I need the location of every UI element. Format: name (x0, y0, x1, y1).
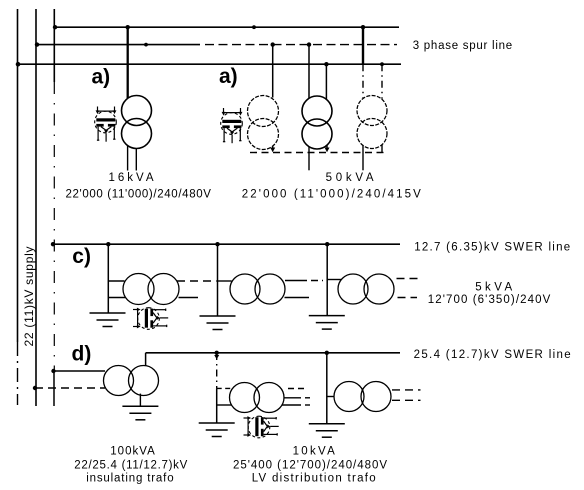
svg-text:insulating trafo: insulating trafo (86, 473, 173, 485)
ground dT2 (199, 423, 235, 437)
wire: supply busbar 1 lower dash (17, 342, 19, 405)
wire: SWER line d (146, 352, 400, 354)
node: swer c junction 3 (325, 242, 329, 246)
node: phase1 junction T3a (361, 25, 365, 29)
wire: T1b primary feed (272, 45, 274, 98)
svg-text:12.7 (6.35)kV SWER line: 12.7 (6.35)kV SWER line (414, 241, 570, 253)
wire: dT2 right mid (284, 397, 301, 399)
wire: dT3 drop (326, 353, 328, 423)
svg-text:22'000 (11'000)/240/480V: 22'000 (11'000)/240/480V (65, 189, 211, 201)
transformer dT1 circles (104, 366, 159, 396)
wire: cT3 upper branch (327, 279, 341, 281)
svg-text:LV distribution trafo: LV distribution trafo (252, 473, 376, 485)
node: phase3 tap (16, 62, 21, 67)
node: phase2 junction T2a (307, 42, 311, 46)
wire: supply busbar 2 (35, 9, 37, 406)
wire: cT2 right upper (285, 280, 307, 282)
transformer dT3 circles (334, 382, 391, 412)
LV icon U4 rotated (244, 416, 279, 438)
svg-text:50kVA: 50kVA (326, 172, 374, 184)
svg-text:12'700 (6'350)/240V: 12'700 (6'350)/240V (428, 294, 551, 306)
wire: supply busbar 3 dash-dot (53, 82, 55, 371)
transformer T3 circles dashed (357, 96, 387, 149)
wire: cT3 drop (326, 244, 328, 315)
wire: dT2 drop dashdot (216, 353, 218, 388)
wire: T3 secondary right stub (381, 145, 383, 153)
node: swer d junction 2 (325, 351, 329, 355)
node: swer d junction 1 (215, 351, 219, 355)
transformer T1a circles (122, 96, 152, 149)
svg-text:5kVA: 5kVA (475, 281, 512, 293)
node: phase3 junction T2b (324, 62, 328, 66)
node: phase1 junction T1a (126, 25, 130, 29)
transformer cT3 circles (338, 274, 394, 304)
wire: SWER line c (52, 243, 400, 245)
wire: T1a primary feed (127, 27, 129, 98)
wire: cT1 right lower (179, 297, 199, 299)
node: phase2 junction T1b (271, 42, 275, 46)
wire: cT2 right upper dash (311, 280, 323, 282)
node: phase2 tap (35, 42, 39, 46)
wire: T2 secondary drop with arrow (326, 145, 328, 149)
svg-text:16kVA: 16kVA (109, 172, 154, 184)
node: swer c junction 2 (215, 242, 219, 246)
node: d feed tap (51, 369, 55, 373)
node: d feed dashed tap (33, 386, 37, 390)
wire: phase line 1 (54, 26, 399, 28)
wire: dT2 right upper dashed (288, 388, 307, 390)
ground dT1 (122, 406, 158, 420)
svg-text:22'000 (11'000)/240/415V: 22'000 (11'000)/240/415V (242, 189, 421, 201)
wire: cT2 drop (217, 244, 219, 315)
wire: cT1 lower branch (108, 297, 125, 299)
wire: T3 secondary passthrough (362, 146, 364, 171)
LV icon U2 (221, 108, 243, 143)
transformer dT2 circles (230, 383, 285, 413)
wire: dT3 branch (327, 396, 334, 398)
wire: T2 secondary passthrough (308, 147, 310, 171)
node: swer c tap (51, 242, 55, 246)
wire: T3a primary feed thick (362, 27, 364, 64)
svg-text:a): a) (92, 65, 111, 88)
ground dT3 (309, 424, 345, 438)
transformer cT1 circles (123, 274, 179, 305)
svg-text:d): d) (72, 343, 92, 366)
wire: dT1 riser (145, 353, 147, 366)
node: phase2 dot (144, 43, 148, 47)
node: phase3 junction T3b (380, 62, 384, 66)
wire: dT2 right lower dash (305, 404, 313, 406)
wire: a2 LV dashed interconnection (250, 152, 385, 154)
ground cT1 (90, 313, 126, 327)
wire: cT2 upper branch (218, 280, 232, 282)
node: swer c junction 1 (106, 242, 110, 246)
wire: dT2 lower branch (217, 404, 232, 406)
node: phase1 dot (252, 25, 256, 29)
transformer cT2 circles (230, 274, 285, 304)
wire: dT3 right upper dashed (392, 389, 421, 391)
svg-text:25.4 (12.7)kV SWER line: 25.4 (12.7)kV SWER line (414, 349, 571, 361)
wire: dT3 right lower dashed (392, 399, 421, 401)
wire: cT1 right upper dashed (177, 280, 217, 282)
ground cT2 (200, 316, 236, 330)
wire: T1b secondary drop with arrow (272, 146, 274, 149)
wire: T1a secondary right (135, 149, 137, 171)
wire: dT1 ground stem (139, 394, 141, 406)
wire: supply busbar 1 (17, 9, 19, 342)
wire: cT1 drop (107, 244, 109, 312)
wire: phase line 2 solid part (36, 44, 200, 46)
wire: cT3 right lower dashed (398, 297, 418, 299)
wire: T3b primary feed dashdot (381, 64, 383, 99)
wire: T3a primary feed dashdot (362, 64, 364, 98)
wire: d feed dashed (35, 387, 105, 389)
svg-text:c): c) (72, 245, 91, 268)
transformer T1b circles dashed (248, 96, 279, 150)
LV icon U1 (95, 107, 117, 142)
node: phase1 tap (53, 25, 57, 29)
ground cT3 (309, 316, 345, 330)
wire: cT1 upper branch (108, 280, 124, 282)
wire: dT2 drop arrow (214, 355, 219, 359)
wire: T1a secondary left (127, 146, 129, 171)
wire: dT2 right mid dash (305, 397, 313, 399)
wire: dT2 right lower (282, 404, 301, 406)
wire: phase line 3 (18, 63, 402, 65)
wire: cT2 right lower (285, 297, 310, 299)
svg-text:22/25.4 (11/12.7)kV: 22/25.4 (11/12.7)kV (74, 459, 187, 471)
svg-text:10kVA: 10kVA (293, 445, 336, 457)
transformer T2 circles (302, 96, 332, 149)
wire: supply busbar 3 top (53, 9, 55, 82)
svg-text:100kVA: 100kVA (110, 445, 155, 457)
svg-text:25'400 (12'700)/240/480V: 25'400 (12'700)/240/480V (233, 459, 387, 471)
wire: phase line 2 dashed part (205, 44, 397, 46)
wire: supply busbar 3 bottom (53, 371, 55, 406)
wire: cT3 right upper dashed (397, 278, 421, 280)
svg-text:a): a) (219, 65, 238, 88)
wire: dT2 drop solid (216, 388, 218, 422)
wire: T2b primary feed (325, 64, 327, 99)
wire: d feed solid (53, 370, 105, 372)
wire: dT2 upper branch dashed (217, 387, 232, 389)
wire: T2a primary feed (308, 45, 310, 98)
svg-text:22 (11)kV supply: 22 (11)kV supply (22, 247, 36, 347)
svg-text:3 phase spur line: 3 phase spur line (413, 40, 513, 52)
LV icon U3 rotated (133, 308, 168, 330)
